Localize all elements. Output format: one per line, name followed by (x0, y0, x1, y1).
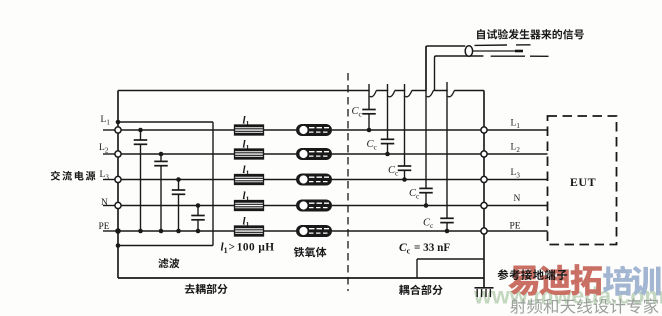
section divider (dashed) (347, 73, 349, 291)
switch hook Cc2 at bus (388, 91, 395, 97)
wire bottom reference conductor (118, 277, 484, 279)
coax top dash 1 (475, 44, 508, 46)
wire L2 line (coupling bus to EUT) (484, 153, 548, 155)
label Cc = 33 nF (399, 242, 450, 256)
capacitor decoupling C3 (L3 to PE) (172, 177, 186, 233)
terminal coupling bus tap L3 (481, 176, 487, 182)
svg-text:PE: PE (99, 222, 110, 232)
terminal coupling bus tap L2 (481, 151, 487, 157)
wire L2 line (terminal to inductor) (118, 153, 235, 155)
EUT box (dashed) (548, 116, 617, 245)
wire PE line (ferrite to coupling bus) (332, 230, 484, 232)
wire L3 supply stub (103, 179, 118, 181)
label L3 right (511, 168, 521, 180)
ferrite bead on L1 (296, 124, 332, 136)
wire L1 supply stub (103, 129, 118, 131)
coax inner conductor left+down (435, 56, 484, 90)
terminal N input (115, 202, 121, 208)
filter box right edge (212, 122, 214, 246)
wire L1 line (ferrite to coupling bus) (332, 129, 484, 131)
ferrite bead on L3 (296, 174, 332, 186)
watermark logo red part (508, 264, 602, 296)
watermark logo blue part (603, 266, 661, 296)
wire N line (coupling bus to EUT) (484, 205, 548, 207)
wire L3 line (inductor to ferrite) (264, 179, 297, 181)
watermark slogan (510, 298, 658, 313)
switch hook Cc3 at bus (405, 91, 412, 97)
wire N line (terminal to inductor) (118, 205, 235, 207)
terminal coupling bus tap PE (481, 228, 487, 234)
terminal L2 input (115, 151, 121, 157)
label EUT (570, 175, 596, 189)
wire PE supply stub (103, 230, 118, 232)
switch hook Cc4 at bus (427, 91, 434, 97)
switch hook Cc1 at bus (370, 91, 377, 97)
label l1 (L3 row) (243, 164, 250, 178)
filter box top edge (118, 121, 213, 123)
label AC mains (51, 171, 96, 181)
label L1 right (511, 119, 521, 131)
filter box bottom edge (118, 245, 213, 247)
coax top dash 2 (516, 44, 531, 46)
ground (reference earth) (475, 288, 494, 297)
label PE left (99, 222, 110, 232)
capacitor Cc1 (coupling to L1) (362, 84, 376, 132)
inductor l1 on L1 (235, 125, 264, 135)
svg-text:EUT: EUT (570, 175, 596, 189)
coax bottom dash 1 (491, 55, 525, 57)
inductor l1 on L3 (235, 175, 264, 185)
wire generator bus right vertical (483, 91, 485, 289)
wire ground step riser (416, 259, 418, 278)
label coupling section (399, 285, 443, 295)
wire L2 supply stub (103, 153, 118, 155)
wire L1 line (coupling bus to EUT) (484, 129, 548, 131)
watermark green url (473, 283, 662, 309)
label L3 left (100, 170, 110, 182)
capacitor Cc3 (coupling to L3) (398, 84, 412, 182)
wire ground step horizontal (417, 258, 484, 260)
wire left boundary vertical (117, 91, 119, 279)
wire L3 line (terminal to inductor) (118, 179, 235, 181)
wire L2 line (ferrite to coupling bus) (332, 153, 484, 155)
wire L1 line (terminal to inductor) (118, 129, 235, 131)
capacitor decoupling C2 (L2 to PE) (154, 152, 168, 234)
label PE right (510, 222, 521, 232)
ferrite bead on N (296, 200, 332, 212)
wire N line (ferrite to coupling bus) (332, 205, 484, 207)
wire L1 line (inductor to ferrite) (264, 129, 297, 131)
label l1 (L1 row) (243, 115, 250, 129)
capacitor decoupling C1 (L1 to PE) (134, 128, 148, 234)
coax bottom dash 2 (530, 55, 549, 57)
wire top rail (generator bus) (118, 90, 484, 92)
coax centre conductor (473, 50, 523, 52)
coax cross-section ellipse (465, 46, 472, 57)
label ferrite (294, 247, 327, 257)
label Cc2 (367, 139, 378, 152)
label L2 right (511, 143, 521, 155)
label reference ground terminal (498, 269, 568, 280)
terminal coupling bus tap L1 (481, 127, 487, 133)
label l1 (N row) (243, 190, 250, 204)
label N left (101, 198, 108, 208)
wire PE line (inductor to ferrite) (264, 230, 297, 232)
svg-text:N: N (514, 194, 521, 204)
wire L3 line (coupling bus to EUT) (484, 179, 548, 181)
svg-text:> 100 μH: > 100 μH (229, 242, 275, 254)
wire L3 line (ferrite to coupling bus) (332, 179, 484, 181)
switch hook Cc5 at bus (448, 91, 455, 97)
ferrite bead on PE (296, 225, 332, 237)
label L2 left (99, 143, 109, 155)
label signal from generator (477, 29, 584, 39)
label decoupling section (185, 284, 228, 294)
inductor l1 on N (235, 201, 264, 211)
inductor l1 on PE (235, 226, 264, 236)
wire N supply stub (103, 205, 118, 207)
label Cc3 (388, 165, 399, 178)
label N right (514, 194, 521, 204)
inductor l1 on L2 (235, 149, 264, 159)
capacitor Cc2 (coupling to L2) (381, 84, 395, 156)
capacitor decoupling C4 (N to PE) (191, 203, 205, 233)
label l1>100uH (221, 242, 275, 256)
label l1 (PE row) (243, 216, 250, 230)
terminal coupling bus tap N (481, 202, 487, 208)
terminal L3 input (115, 176, 121, 182)
capacitor Cc5 (coupling to PE) (440, 82, 454, 233)
terminal L1 input (115, 127, 121, 133)
wire N line (inductor to ferrite) (264, 205, 297, 207)
ferrite bead on L2 (296, 148, 332, 160)
label L1 left (101, 115, 111, 127)
node filter box bottom-left junction (116, 243, 121, 248)
label filter (158, 258, 179, 268)
label l1 (L2 row) (243, 139, 250, 153)
svg-text:PE: PE (510, 222, 521, 232)
wire PE line (coupling bus to EUT) (484, 230, 548, 232)
wire L2 line (inductor to ferrite) (264, 153, 297, 155)
svg-text:= 33 nF: = 33 nF (414, 242, 450, 254)
label Cc1 (352, 106, 363, 119)
node filter box top-left junction (116, 120, 121, 125)
coax outer conductor left+down (426, 46, 465, 90)
node PE input junction (115, 228, 121, 234)
svg-text:N: N (101, 198, 108, 208)
wire PE line (terminal to inductor) (118, 230, 235, 232)
label Cc5 (423, 218, 434, 231)
label Cc4 (409, 188, 420, 201)
capacitor Cc4 (coupling to N) (419, 46, 433, 208)
